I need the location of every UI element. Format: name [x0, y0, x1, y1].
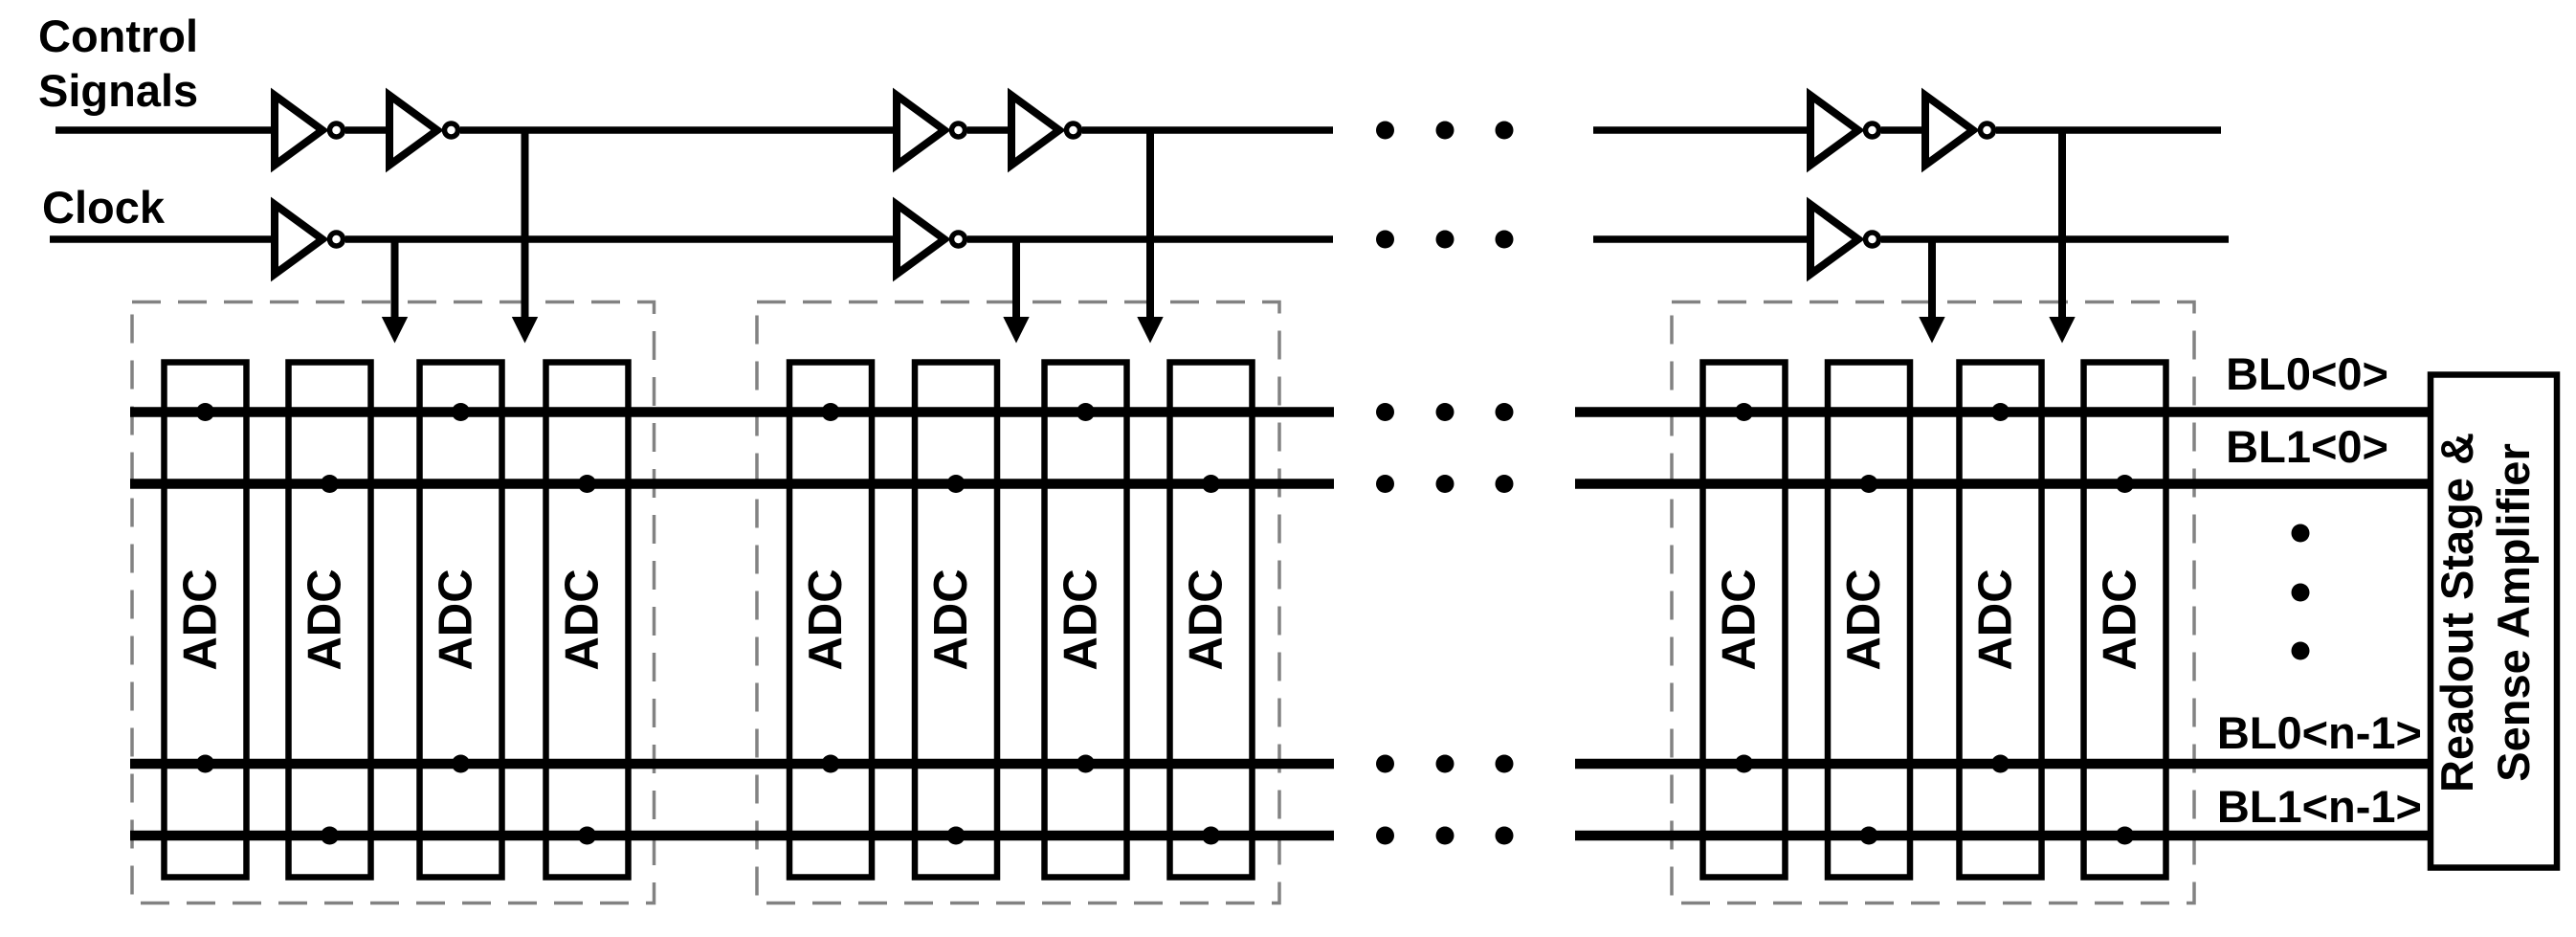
wire: bit line BL0<n-1> left segment — [130, 759, 1334, 770]
svg-text:Readout Stage &: Readout Stage & — [2432, 433, 2482, 792]
ADC block A1 (group 1, column 1) — [165, 363, 247, 878]
ellipsis dot 1 on BL0<0> — [1376, 403, 1394, 421]
dashed ADC group box 1 (left) — [132, 302, 655, 904]
wire: bit line BL1<n-1> left segment — [130, 831, 1334, 841]
junction: ADC tap on BL0<n-1> #6 — [1991, 755, 2010, 773]
junction: ADC tap on BL0<0> #6 — [1991, 403, 2010, 421]
ellipsis dot 2 on BL1<n-1> — [1436, 827, 1455, 845]
junction: ADC tap on BL1<n-1> #2 — [578, 827, 596, 845]
inverter buffer U2 (control line) — [389, 96, 437, 166]
ADC block A9 (group 3, column 1) — [1703, 363, 1786, 878]
wire: clock line segment 2 — [345, 235, 896, 243]
wire: control feed arrow into ADC group 1 — [512, 130, 538, 344]
ellipsis dot 1 on BL1<0> — [1376, 475, 1394, 493]
svg-text:ADC: ADC — [431, 569, 482, 670]
wire: control feed arrow into ADC group 2 — [1137, 130, 1163, 344]
junction: ADC tap on BL1<n-1> #6 — [2116, 827, 2134, 845]
wire: control feed arrow into ADC group 3 — [2049, 130, 2075, 344]
wire: clock line segment 1 — [50, 235, 274, 243]
wire: control line segment 4 — [967, 126, 1010, 134]
ellipsis dot 3 on clock line — [1496, 231, 1514, 249]
svg-text:Signals: Signals — [38, 65, 198, 116]
ellipsis dot 2 on control line — [1436, 122, 1455, 140]
svg-text:BL1<n-1>: BL1<n-1> — [2217, 781, 2422, 832]
ellipsis dot 3 on BL0<n-1> — [1496, 755, 1514, 773]
wire: control line segment 1 — [56, 126, 274, 134]
inverter buffer U7 (clock line) — [275, 205, 322, 275]
wire: bit line BL1<0> right segment to readout stage — [1575, 479, 2431, 489]
junction: ADC tap on BL1<n-1> #5 — [1860, 827, 1878, 845]
svg-text:ADC: ADC — [300, 569, 351, 670]
svg-text:ADC: ADC — [1055, 569, 1107, 670]
svg-text:ADC: ADC — [2095, 569, 2146, 670]
ADC block A5 (group 2, column 1) — [789, 363, 872, 878]
junction: ADC tap on BL0<n-1> #5 — [1735, 755, 1753, 773]
ellipsis dot 1 on BL0<n-1> — [1376, 755, 1394, 773]
junction: ADC tap on BL0<n-1> #3 — [822, 755, 840, 773]
svg-text:ADC: ADC — [1970, 569, 2022, 670]
svg-text:Control: Control — [38, 11, 198, 61]
wire: clock feed arrow into ADC group 3 — [1919, 239, 1944, 344]
svg-text:ADC: ADC — [1181, 569, 1232, 670]
svg-text:Clock: Clock — [42, 182, 166, 233]
wire: control line segment 3 — [460, 126, 896, 134]
svg-text:ADC: ADC — [800, 569, 852, 670]
wire: bit line BL0<0> left segment — [130, 407, 1334, 417]
wire: control line segment 2 — [345, 126, 389, 134]
wire: clock line segment 5 — [1881, 235, 2229, 243]
vertical ellipsis dot 3 (more bit lines) — [2292, 642, 2310, 660]
wire: clock feed arrow into ADC group 1 — [382, 239, 408, 344]
svg-text:BL0<0>: BL0<0> — [2226, 348, 2388, 399]
ellipsis dot 3 on BL1<n-1> — [1496, 827, 1514, 845]
inverter buffer U5 (control line) — [1810, 96, 1858, 166]
ADC block A2 (group 1, column 2) — [289, 363, 371, 878]
dashed ADC group box 3 (right) — [1672, 302, 2194, 904]
ADC block A6 (group 2, column 2) — [915, 363, 997, 878]
inverter buffer U6 (control line) — [1925, 96, 1973, 166]
wire: clock feed arrow into ADC group 2 — [1003, 239, 1029, 344]
junction: ADC tap on BL0<0> #3 — [822, 403, 840, 421]
svg-text:ADC: ADC — [925, 569, 977, 670]
ellipsis dot 2 on BL1<0> — [1436, 475, 1455, 493]
inverter buffer U9 (clock line) — [1810, 205, 1858, 275]
junction: ADC tap on BL0<0> #4 — [1077, 403, 1095, 421]
svg-text:ADC: ADC — [175, 569, 227, 670]
junction: ADC tap on BL0<n-1> #1 — [196, 755, 214, 773]
ellipsis dot 1 on BL1<n-1> — [1376, 827, 1394, 845]
wire: control line segment 5 — [1082, 126, 1333, 134]
svg-text:Sense Amplifier: Sense Amplifier — [2488, 443, 2539, 782]
svg-text:ADC: ADC — [1714, 569, 1765, 670]
wire: bit line BL0<n-1> right segment to readout stage — [1575, 759, 2431, 770]
junction: ADC tap on BL1<0> #1 — [321, 475, 339, 493]
vertical ellipsis dot 1 (more bit lines) — [2292, 524, 2310, 543]
junction: ADC tap on BL0<0> #1 — [196, 403, 214, 421]
ellipsis dot 3 on BL0<0> — [1496, 403, 1514, 421]
junction: ADC tap on BL0<n-1> #2 — [452, 755, 470, 773]
svg-text:ADC: ADC — [557, 569, 609, 670]
ADC block A12 (group 3, column 4) — [2084, 363, 2166, 878]
junction: ADC tap on BL0<0> #2 — [452, 403, 470, 421]
ellipsis dot 2 on BL0<0> — [1436, 403, 1455, 421]
junction: ADC tap on BL1<n-1> #4 — [1202, 827, 1220, 845]
readout stage and sense amplifier block U10 — [2431, 375, 2557, 868]
inverter buffer U1 (control line) — [275, 96, 322, 166]
inverter buffer U8 (clock line) — [897, 205, 944, 275]
junction: ADC tap on BL1<0> #6 — [2116, 475, 2134, 493]
ADC block A3 (group 1, column 3) — [420, 363, 502, 878]
ellipsis dot 2 on clock line — [1436, 231, 1455, 249]
dashed ADC group box 2 (middle) — [757, 302, 1279, 904]
junction: ADC tap on BL1<n-1> #3 — [947, 827, 966, 845]
wire: bit line BL1<0> left segment — [130, 479, 1334, 489]
junction: ADC tap on BL1<0> #2 — [578, 475, 596, 493]
wire: bit line BL0<0> right segment to readout stage — [1575, 407, 2431, 417]
wire: control line segment 6 — [1593, 126, 1810, 134]
ADC block A8 (group 2, column 4) — [1170, 363, 1253, 878]
wire: control line segment 8 — [1996, 126, 2221, 134]
vertical ellipsis dot 2 (more bit lines) — [2292, 584, 2310, 602]
junction: ADC tap on BL0<0> #5 — [1735, 403, 1753, 421]
junction: ADC tap on BL1<n-1> #1 — [321, 827, 339, 845]
junction: ADC tap on BL1<0> #3 — [947, 475, 966, 493]
svg-text:ADC: ADC — [1838, 569, 1890, 670]
wire: control line segment 7 — [1881, 126, 1924, 134]
wire: clock line segment 3 — [967, 235, 1333, 243]
inverter buffer U4 (control line) — [1011, 96, 1059, 166]
ADC block A10 (group 3, column 2) — [1828, 363, 1910, 878]
ellipsis dot 1 on clock line — [1376, 231, 1394, 249]
ADC block A7 (group 2, column 3) — [1045, 363, 1127, 878]
junction: ADC tap on BL0<n-1> #4 — [1077, 755, 1095, 773]
ADC block A11 (group 3, column 3) — [1960, 363, 2042, 878]
junction: ADC tap on BL1<0> #5 — [1860, 475, 1878, 493]
ellipsis dot 3 on BL1<0> — [1496, 475, 1514, 493]
junction: ADC tap on BL1<0> #4 — [1202, 475, 1220, 493]
ellipsis dot 1 on control line — [1376, 122, 1394, 140]
ADC block A4 (group 1, column 4) — [546, 363, 629, 878]
svg-text:BL1<0>: BL1<0> — [2226, 421, 2388, 472]
ellipsis dot 2 on BL0<n-1> — [1436, 755, 1455, 773]
wire: bit line BL1<n-1> right segment to readout stage — [1575, 831, 2431, 841]
wire: clock line segment 4 — [1593, 235, 1810, 243]
inverter buffer U3 (control line) — [897, 96, 944, 166]
ellipsis dot 3 on control line — [1496, 122, 1514, 140]
svg-text:BL0<n-1>: BL0<n-1> — [2217, 707, 2422, 758]
